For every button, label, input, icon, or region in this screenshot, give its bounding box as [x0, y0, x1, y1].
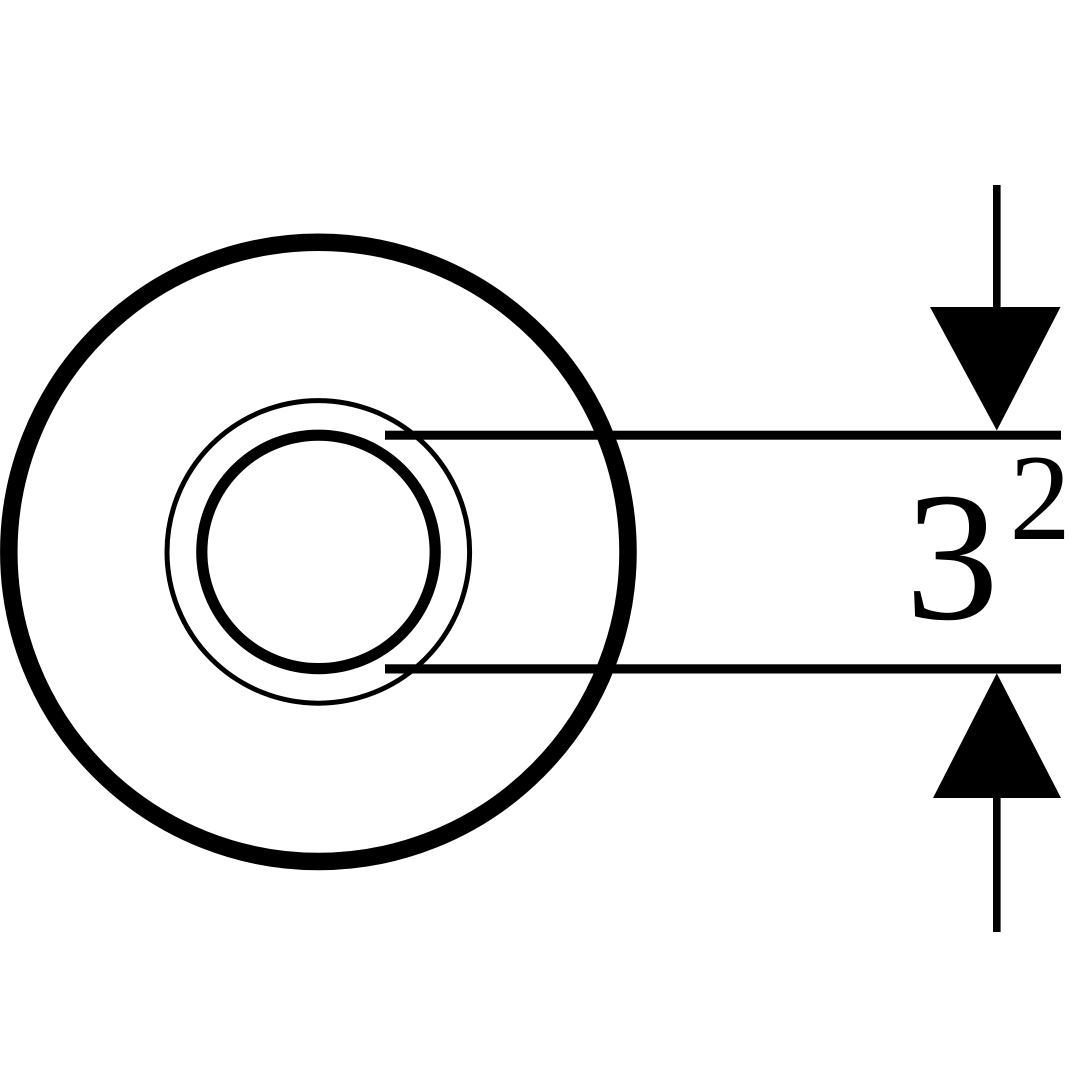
svg-text:3: 3	[905, 455, 999, 659]
svg-text:2: 2	[1009, 429, 1071, 566]
